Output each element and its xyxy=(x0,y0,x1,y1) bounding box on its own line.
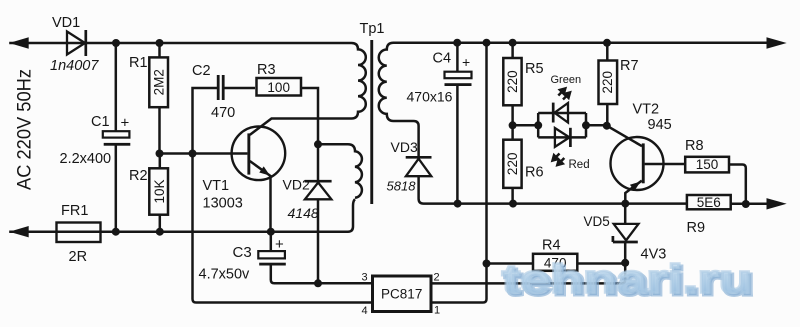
svg-text:R7: R7 xyxy=(620,58,639,74)
svg-text:10K: 10K xyxy=(152,179,167,203)
svg-text:C3: C3 xyxy=(233,244,252,261)
svg-text:100: 100 xyxy=(267,80,290,95)
svg-text:1: 1 xyxy=(434,305,440,317)
svg-text:VT1: VT1 xyxy=(203,178,230,194)
svg-text:C4: C4 xyxy=(433,51,452,67)
svg-text:4.7x50v: 4.7x50v xyxy=(199,267,251,283)
svg-text:PC817: PC817 xyxy=(381,287,422,302)
svg-text:1n4007: 1n4007 xyxy=(50,58,99,74)
svg-text:4148: 4148 xyxy=(288,205,319,221)
svg-text:AC 220V 50Hz: AC 220V 50Hz xyxy=(15,69,36,190)
svg-text:5E6: 5E6 xyxy=(697,195,721,210)
svg-text:VD1: VD1 xyxy=(52,15,80,31)
svg-text:VT2: VT2 xyxy=(633,102,660,118)
svg-text:tehnari.ru: tehnari.ru xyxy=(502,258,752,302)
svg-text:470: 470 xyxy=(211,105,235,121)
svg-text:R9: R9 xyxy=(687,220,706,236)
svg-text:2.2x400: 2.2x400 xyxy=(60,151,112,167)
svg-text:220: 220 xyxy=(600,71,615,94)
svg-text:+: + xyxy=(275,236,284,253)
svg-text:+: + xyxy=(121,115,130,132)
svg-text:R5: R5 xyxy=(525,61,544,77)
svg-text:+: + xyxy=(462,54,470,70)
svg-text:2: 2 xyxy=(434,272,440,284)
svg-text:Green: Green xyxy=(551,74,582,86)
svg-text:R2: R2 xyxy=(129,168,148,184)
svg-text:R8: R8 xyxy=(685,138,704,154)
svg-text:R1: R1 xyxy=(129,55,148,71)
svg-text:Red: Red xyxy=(569,159,590,171)
svg-text:945: 945 xyxy=(648,117,672,133)
svg-text:2M2: 2M2 xyxy=(151,69,166,95)
svg-text:13003: 13003 xyxy=(203,196,243,212)
svg-text:VD2: VD2 xyxy=(283,177,310,193)
svg-text:C1: C1 xyxy=(91,114,110,130)
svg-text:3: 3 xyxy=(362,272,368,284)
svg-text:4: 4 xyxy=(362,305,368,317)
svg-text:R4: R4 xyxy=(542,238,561,254)
svg-text:Tp1: Tp1 xyxy=(360,21,385,37)
svg-text:FR1: FR1 xyxy=(61,203,88,219)
svg-text:2R: 2R xyxy=(69,249,88,265)
svg-text:5818: 5818 xyxy=(387,179,417,194)
svg-text:VD3: VD3 xyxy=(391,139,418,155)
svg-text:R3: R3 xyxy=(257,62,276,78)
svg-text:220: 220 xyxy=(505,153,520,176)
svg-text:R6: R6 xyxy=(525,165,544,181)
svg-text:150: 150 xyxy=(696,157,719,172)
svg-text:C2: C2 xyxy=(192,63,211,79)
svg-text:470x16: 470x16 xyxy=(407,89,453,105)
svg-text:220: 220 xyxy=(505,70,520,93)
svg-text:VD5: VD5 xyxy=(584,214,610,229)
